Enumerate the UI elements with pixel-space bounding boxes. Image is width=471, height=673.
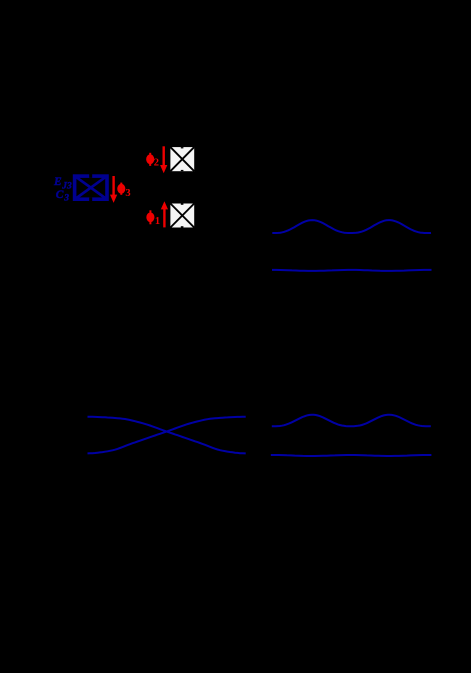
plot curve: bottom-left descending band bbox=[88, 417, 246, 454]
plot curve: bottom-right upper band bbox=[272, 415, 431, 427]
josephson junction J2 (top white box) bbox=[170, 147, 194, 171]
josephson junction J1 (bottom white box) bbox=[170, 204, 194, 228]
flux arrow phi2 (down) bbox=[160, 146, 167, 173]
label phi1 bbox=[148, 210, 160, 227]
flux arrow phi3 (down) bbox=[110, 176, 117, 203]
label C3 bbox=[56, 189, 69, 203]
flux arrow phi1 (up) bbox=[161, 201, 168, 227]
svg-text:3: 3 bbox=[63, 193, 69, 203]
plot curve: bottom-left ascending band bbox=[88, 417, 246, 454]
label phi3 bbox=[119, 183, 131, 199]
svg-text:2: 2 bbox=[154, 158, 159, 169]
label EJ3 bbox=[53, 176, 72, 191]
svg-text:1: 1 bbox=[155, 216, 160, 227]
plot curve: top-right upper band bbox=[272, 220, 431, 233]
svg-text:3: 3 bbox=[125, 188, 130, 199]
plot curve: bottom-right lower band bbox=[271, 455, 432, 456]
josephson junction J3 (blue box) bbox=[74, 173, 107, 203]
label phi2 bbox=[148, 153, 159, 169]
plot curve: top-right lower band bbox=[272, 270, 432, 271]
svg-text:E: E bbox=[53, 176, 62, 188]
svg-text:C: C bbox=[56, 189, 64, 201]
